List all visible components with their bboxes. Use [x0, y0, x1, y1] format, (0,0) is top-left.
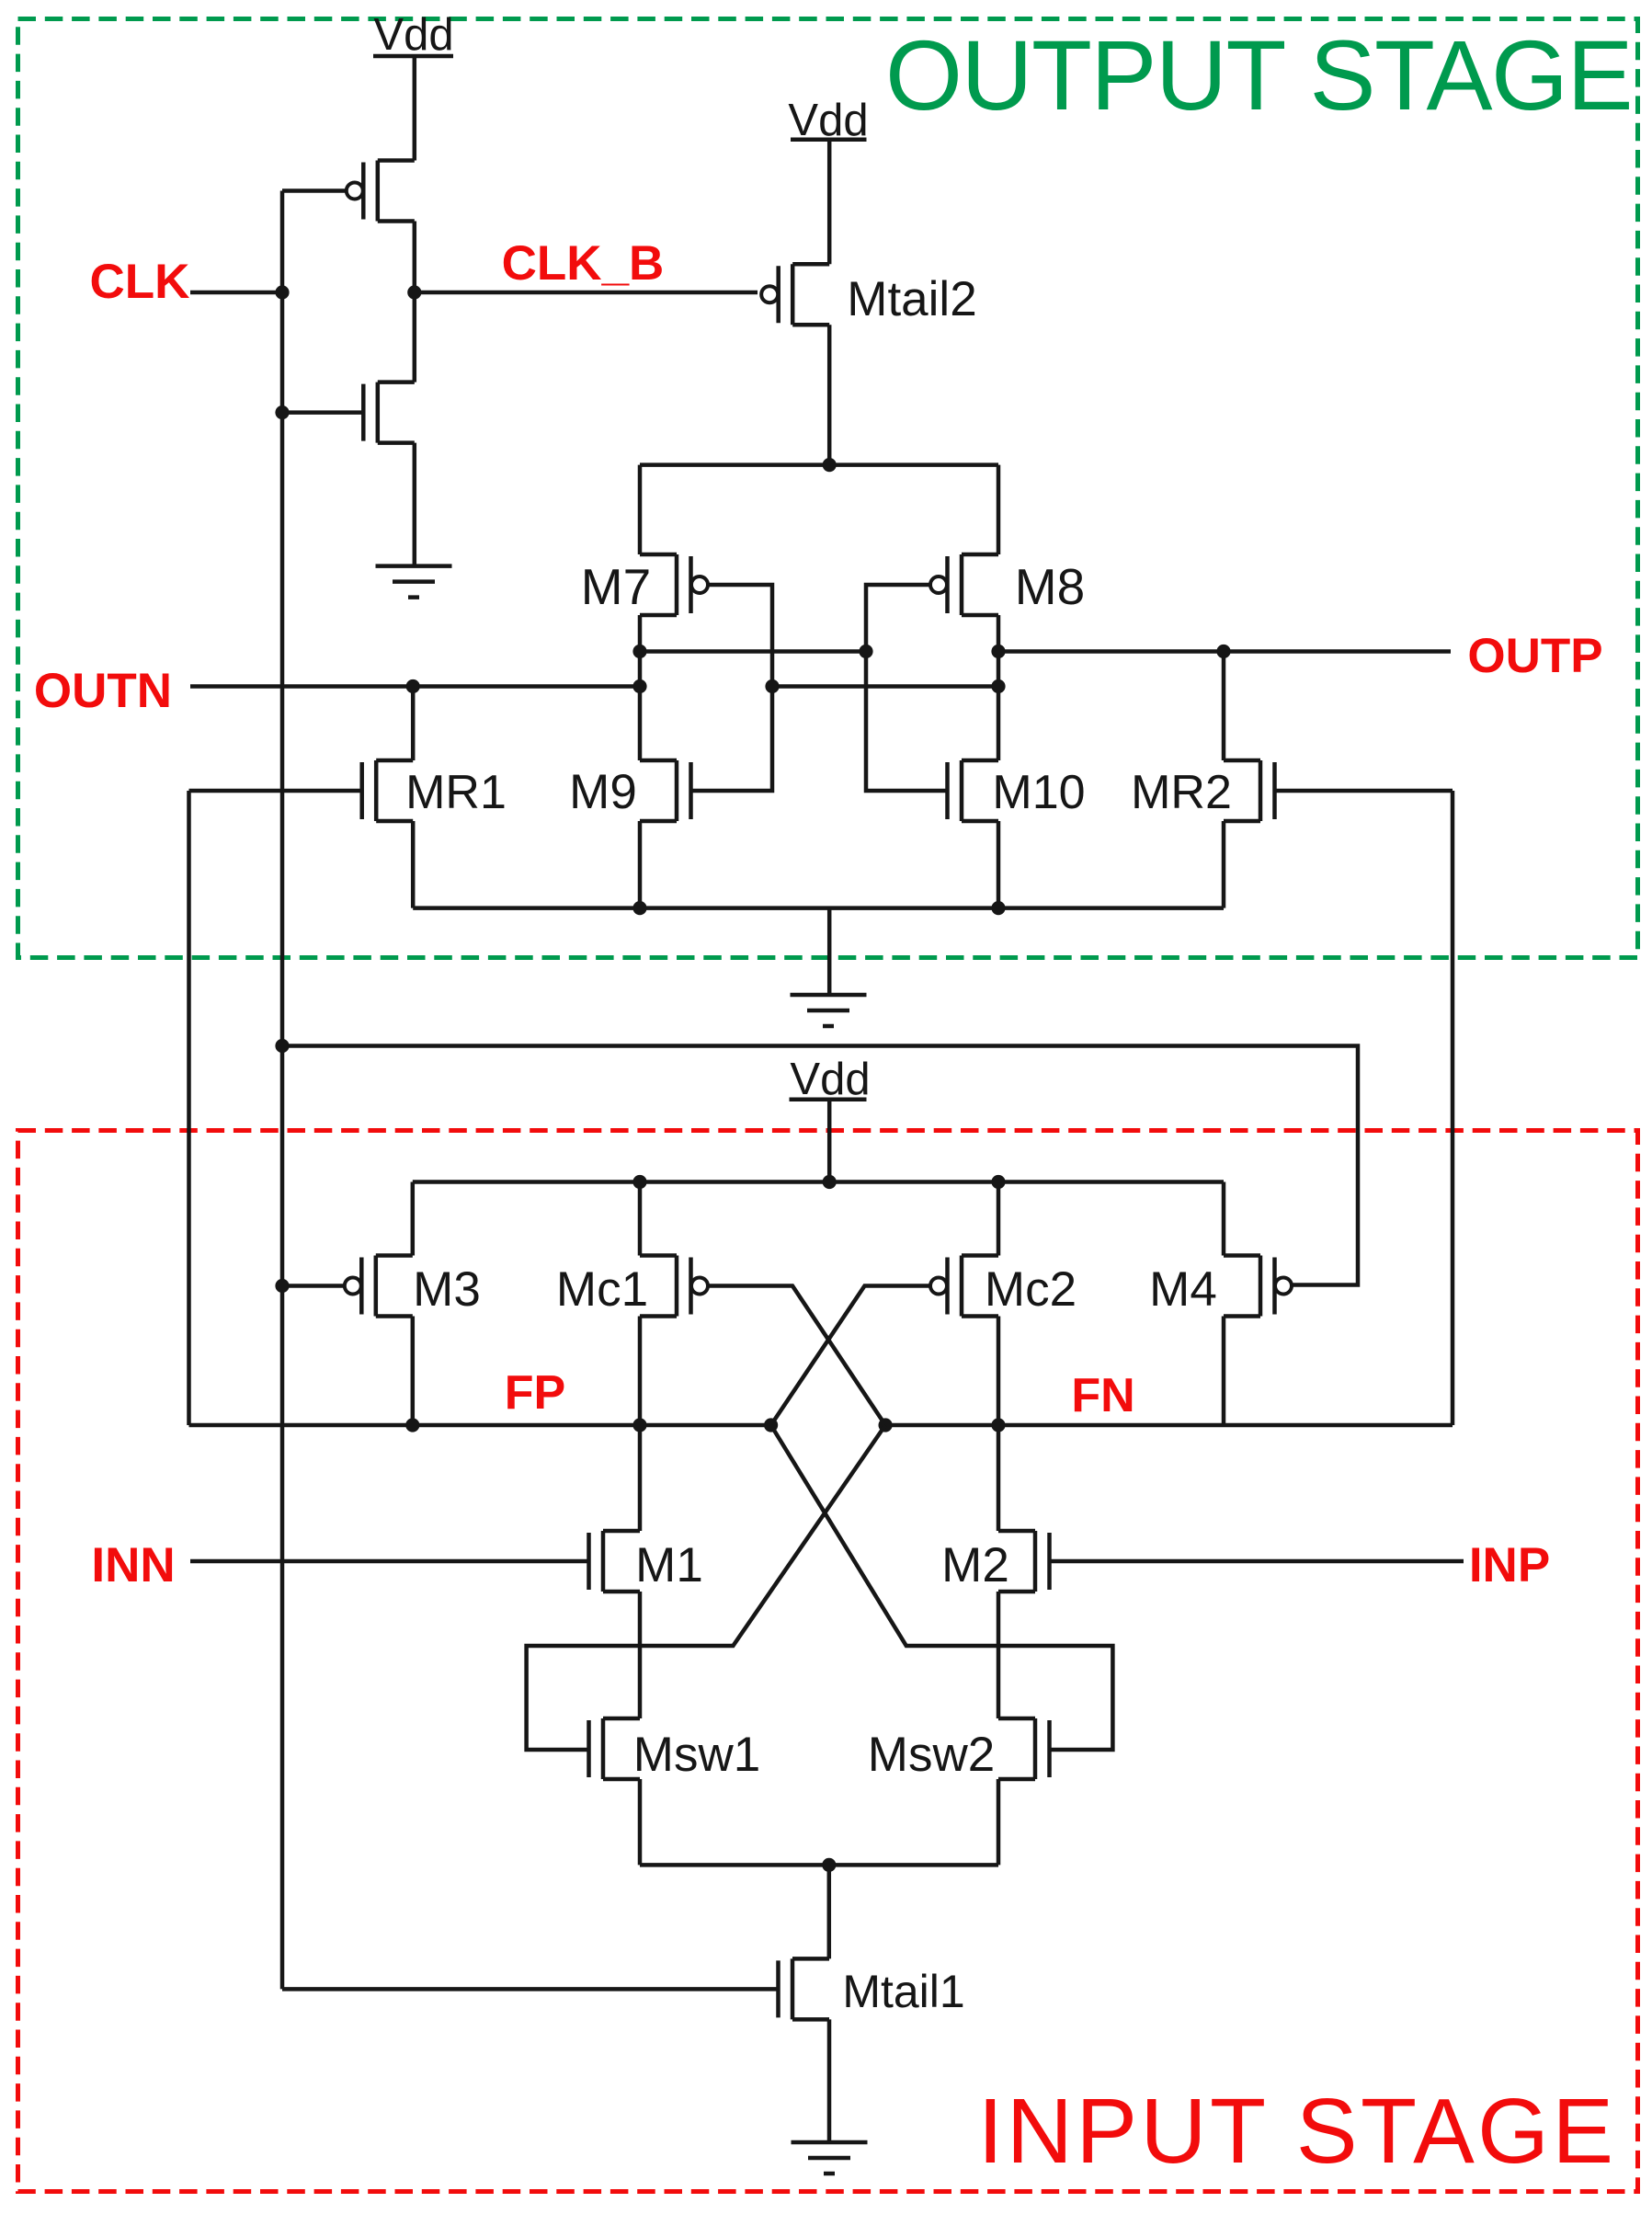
- transistor M8 (PMOS latch, right): [948, 554, 999, 615]
- wire top rail down to M8 source: [997, 465, 1001, 554]
- transistor Msw1 (switch NMOS, left): [589, 1718, 641, 1779]
- node M8 drain junction: [991, 645, 1005, 658]
- svg-text:MR2: MR2: [1131, 766, 1232, 819]
- wire INP to M2 gate: [1050, 1559, 1464, 1564]
- wire M4 source to top rail: [1222, 1182, 1226, 1256]
- wire M4 drain to FN rail: [1222, 1317, 1226, 1426]
- wire MR1 drain to OUTN: [411, 687, 416, 761]
- wire tail rail to Mtail1 drain: [827, 1865, 832, 1958]
- node M3 gate junction on CLK line: [275, 1279, 289, 1293]
- wire Vdd to input-stage top rail: [827, 1100, 832, 1182]
- node FP diagonal junction: [764, 1418, 778, 1432]
- wire M8 drain column (OUTP node): [997, 615, 1001, 760]
- wire MR1 gate to FP: [189, 789, 362, 793]
- transistor M4 (precharge PMOS, right): [1224, 1256, 1275, 1317]
- svg-text:Vdd: Vdd: [790, 1055, 870, 1104]
- node MR1 drain tap on OUTN: [406, 679, 420, 693]
- wire OUTN output line: [190, 684, 640, 689]
- svg-text:Msw2: Msw2: [868, 1728, 995, 1782]
- wire OUTP output line: [998, 649, 1451, 654]
- node M8/M10 gate junction: [859, 645, 872, 658]
- transistor Mtail2 (PMOS tail of output stage): [779, 264, 830, 325]
- wire M3 gate to CLK: [282, 1284, 345, 1288]
- wire Mc2 gate diagonal to FP: [771, 1286, 930, 1426]
- wire Msw1 source to tail rail: [638, 1779, 643, 1865]
- wire FP rail: [189, 1423, 771, 1428]
- svg-text:FN: FN: [1071, 1369, 1134, 1422]
- node Mc1/M1 drain on FP: [632, 1418, 646, 1432]
- transistor M10 (NMOS latch, right): [948, 760, 999, 821]
- wire FN rail: [885, 1423, 1453, 1428]
- transistor MR2 (reset NMOS, right): [1224, 760, 1275, 821]
- wire FP cross-coupling diagonal to Msw2 gate: [771, 1425, 1113, 1750]
- wire inverter PMOS gate: [282, 188, 347, 193]
- wire top rail down to M7 source: [638, 465, 643, 554]
- wire output-stage bottom rail: [413, 906, 1224, 910]
- node M7 drain junction: [632, 645, 646, 658]
- wire OUTP cross-coupling to M7/M9 gates: [772, 684, 998, 689]
- svg-text:OUTPUT STAGE: OUTPUT STAGE: [885, 19, 1632, 131]
- wire bottom rail to ground: [827, 908, 832, 995]
- transistor inverter PMOS (CLK buffer pull-up): [363, 161, 415, 222]
- node M7/M9 gate junction: [765, 679, 779, 693]
- wire M1 source to Msw1 drain: [638, 1592, 643, 1718]
- wire CLK distribution to M4 gate: [282, 1046, 1358, 1285]
- wire Msw2 source to tail rail: [997, 1779, 1001, 1865]
- wire Mtail1 source to ground: [827, 2019, 832, 2142]
- wire M7 gate / M9 gate column (to OUTP side): [691, 585, 773, 791]
- node M3 drain on FP: [405, 1418, 419, 1432]
- wire M9 source to bottom rail: [638, 821, 643, 908]
- svg-text:Mc2: Mc2: [985, 1262, 1077, 1317]
- wire M8 gate / M10 gate column (to OUTN side): [866, 585, 948, 791]
- wire MR2 gate vertical down to FN rail: [1451, 791, 1455, 1425]
- wire Mc1 gate diagonal to FN: [708, 1286, 885, 1426]
- svg-text:FP: FP: [505, 1366, 565, 1420]
- wire M1 drain to FP: [638, 1425, 643, 1531]
- wire inverter NMOS source to ground: [413, 443, 417, 566]
- wire Mc1 drain to FP rail: [638, 1317, 643, 1426]
- svg-text:M10: M10: [992, 766, 1085, 819]
- svg-text:OUTP: OUTP: [1467, 629, 1602, 683]
- node bottom rail right junction: [991, 901, 1005, 915]
- transistor inverter NMOS (CLK buffer pull-down): [363, 382, 415, 443]
- node inverter NMOS gate junction: [275, 405, 289, 419]
- svg-text:M3: M3: [413, 1262, 481, 1317]
- svg-text:MR1: MR1: [405, 766, 507, 819]
- wire output-stage top rail: [640, 462, 998, 467]
- svg-text:M8: M8: [1015, 558, 1085, 615]
- wire MR2 gate to FN: [1275, 789, 1453, 793]
- transistor Mc1 (cross-coupled PMOS, left): [640, 1256, 691, 1317]
- wire Mc2 source to top rail: [997, 1182, 1001, 1256]
- transistor M2 (input NMOS, right): [998, 1531, 1050, 1592]
- node Mc2/M2 drain on FN: [991, 1418, 1005, 1432]
- wire Mc2 drain to FN rail: [997, 1317, 1001, 1426]
- wire input-stage top rail: [413, 1180, 1224, 1184]
- svg-text:M4: M4: [1149, 1262, 1217, 1317]
- svg-text:CLK: CLK: [90, 255, 190, 309]
- wire INN to M1 gate: [190, 1559, 589, 1564]
- wire Vdd to inverter PMOS source: [413, 56, 417, 161]
- wire input-stage bottom rail: [640, 1863, 998, 1867]
- wire Vdd to Mtail2 source: [827, 140, 832, 265]
- wire CLK label to inverter input: [190, 291, 282, 295]
- transistor M1 (input NMOS, left): [589, 1531, 641, 1592]
- wire M3 drain to FP rail: [411, 1317, 416, 1426]
- svg-text:OUTN: OUTN: [34, 664, 172, 718]
- node MR2 drain tap on OUTP: [1216, 645, 1230, 658]
- svg-text:INPUT STAGE: INPUT STAGE: [978, 2080, 1617, 2183]
- transistor Mtail1 (NMOS tail of input stage): [779, 1958, 830, 2019]
- ground (input stage): [792, 2142, 868, 2174]
- wire M2 source to Msw2 drain: [997, 1592, 1001, 1718]
- transistor M3 (precharge PMOS, left): [361, 1256, 413, 1317]
- node FN diagonal junction: [879, 1418, 893, 1432]
- svg-text:CLK_B: CLK_B: [502, 236, 665, 291]
- svg-text:INP: INP: [1469, 1538, 1550, 1592]
- wire FN cross-coupling diagonal to Msw1 gate: [527, 1425, 886, 1750]
- node tail / top rail junction: [823, 458, 837, 472]
- wire inverter NMOS gate: [282, 410, 363, 415]
- svg-text:M7: M7: [581, 558, 651, 615]
- transistor M9 (NMOS latch, left): [640, 760, 691, 821]
- svg-text:Mc1: Mc1: [556, 1262, 648, 1317]
- wire Mtail2 drain to output-stage top rail: [827, 325, 832, 464]
- wire CLK input vertical (inverter input / M3 gate / Mtail1 gate): [280, 191, 285, 1990]
- output stage boundary (green dashed box): [18, 19, 1638, 958]
- ground (output stage): [791, 995, 867, 1026]
- input stage boundary (red dashed box): [18, 1131, 1638, 2192]
- node CLK_B tap junction: [407, 285, 421, 299]
- transistor MR1 (reset NMOS, left): [362, 760, 414, 821]
- wire MR2 source to bottom rail: [1222, 821, 1226, 908]
- wire Mc1 source to top rail: [638, 1182, 643, 1256]
- transistor Mc2 (cross-coupled PMOS, right): [948, 1256, 999, 1317]
- wire MR2 drain to OUTP: [1222, 652, 1226, 761]
- wire inverter output column (CLK_B node): [413, 222, 417, 382]
- svg-text:Msw1: Msw1: [633, 1728, 760, 1782]
- wire CLK_B to Mtail2 gate: [415, 291, 758, 295]
- wire OUTN cross-coupling to M8/M10 gates: [640, 649, 866, 654]
- svg-text:Mtail2: Mtail2: [847, 272, 976, 326]
- wire M3 source to top rail: [411, 1182, 416, 1256]
- svg-text:M1: M1: [635, 1538, 703, 1592]
- node OUTP junction on M8 drain column: [991, 679, 1005, 693]
- wire M10 source to bottom rail: [997, 821, 1001, 908]
- wire MR1 source to bottom rail: [411, 821, 416, 908]
- wire M7 drain column (OUTN node): [638, 615, 643, 760]
- wire CLK to Mtail1 gate: [282, 1987, 779, 1991]
- svg-text:M9: M9: [569, 765, 637, 819]
- node Mc2 source junction: [991, 1175, 1005, 1189]
- svg-text:M2: M2: [941, 1538, 1009, 1592]
- svg-text:Mtail1: Mtail1: [842, 1966, 964, 2017]
- node OUTN junction on M7 drain column: [632, 679, 646, 693]
- transistor Msw2 (switch NMOS, right): [998, 1718, 1050, 1779]
- svg-text:Vdd: Vdd: [373, 10, 453, 60]
- node Mc1 source junction: [632, 1175, 646, 1189]
- ground (CLK inverter): [376, 566, 452, 598]
- transistor M7 (PMOS latch, left): [640, 554, 691, 615]
- node CLK distribution junction: [275, 1039, 289, 1053]
- wire M2 drain to FN: [997, 1425, 1001, 1531]
- svg-text:INN: INN: [91, 1538, 175, 1592]
- wire MR1 gate vertical down to FP rail: [187, 791, 191, 1425]
- node CLK junction on input column: [275, 285, 289, 299]
- node tail junction: [822, 1858, 836, 1872]
- node bottom rail left junction: [632, 901, 646, 915]
- node Vdd / top rail junction: [823, 1175, 837, 1189]
